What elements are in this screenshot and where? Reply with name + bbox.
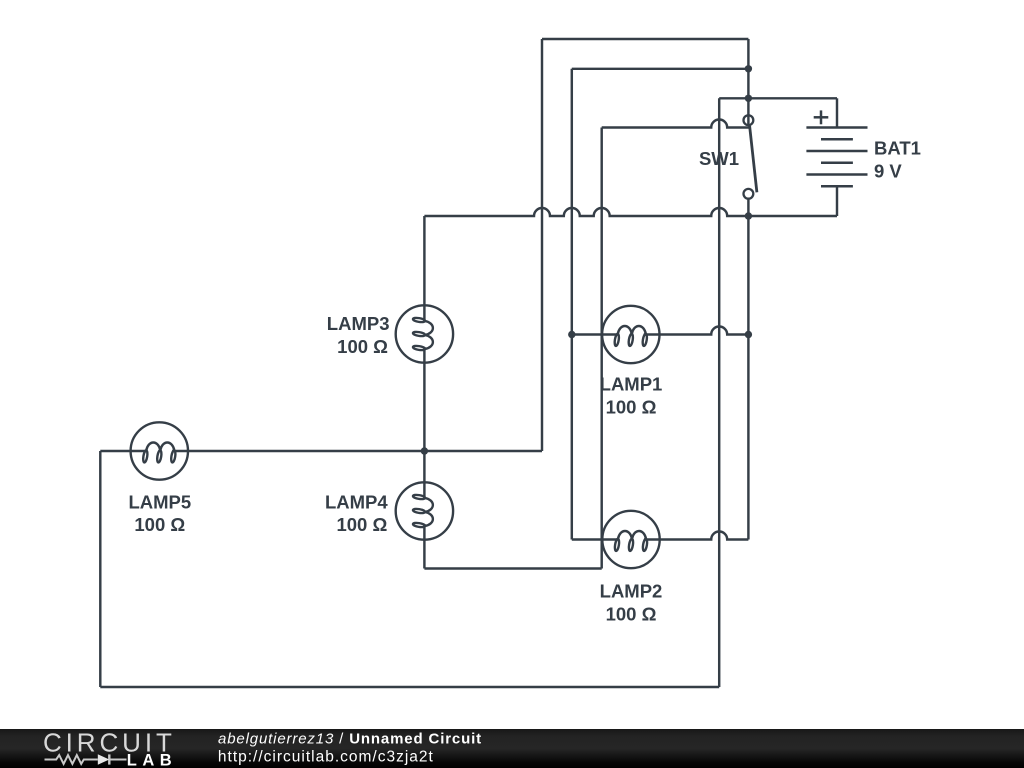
wire: battery top row from V4 corner to BAT1 [719,97,837,99]
lamp LAMP5 [131,422,188,479]
wire: vertical V3 x=601.7 [600,128,602,569]
svg-text:100 Ω: 100 Ω [337,336,388,357]
node at V5/H3 [745,95,752,102]
node at LAMP1 left [568,331,575,338]
svg-text:LAMP5: LAMP5 [128,492,191,513]
svg-text:SW1: SW1 [699,148,739,169]
wire: vertical V1 x=542 [541,39,543,451]
wire: vertical V8 lamp3/lamp4 column x=424.4 [423,216,425,569]
switch SW1 blade [750,126,757,193]
lamp LAMP2 [602,511,659,568]
footer bar [0,729,1024,768]
wire: vertical V7 left edge x=100.3 [99,451,101,687]
battery BAT1 plates [806,110,867,186]
lamp LAMP1 [602,306,659,363]
wire: main bus y=216 with hops over V1 V2 V3 V4 [424,208,837,216]
node at V5/bus [745,212,752,219]
wire: second horizontal net from V2 to V5 [572,68,749,70]
switch SW1 [744,115,757,198]
wire: LAMP2 row with hop over V4 [572,532,749,540]
footer logo resistor-diode glyph [45,754,127,764]
battery BAT1 bottom lead [836,186,838,216]
wire: LAMP1 row with hop over V4 [572,327,749,335]
node junction dots [421,65,752,455]
svg-text:LAMP4: LAMP4 [325,491,388,512]
wire: top horizontal net from V1 to V5 [542,38,748,40]
svg-text:100 Ω: 100 Ω [606,603,657,624]
svg-text:100 Ω: 100 Ω [134,514,185,535]
wire: LAMP4 bottom row [424,567,601,569]
wire: bottom rail [100,686,719,688]
svg-text:abelgutierrez13 / Unnamed Circ: abelgutierrez13 / Unnamed Circuit [218,731,482,748]
wire: vertical V5 lower x=748.4 [747,200,749,540]
wire: LAMP5 row [100,450,542,452]
svg-text:LAMP1: LAMP1 [600,374,663,395]
footer logo diode triangle [98,754,110,764]
wire: horizontal to switch blade with hop over V4 [602,120,749,128]
svg-text:http://circuitlab.com/c3zja2t: http://circuitlab.com/c3zja2t [218,749,434,766]
lamp LAMP3 (vertical) [396,305,453,362]
wire: vertical V2 x=571.8 [571,69,573,540]
node at V5/H2 [745,65,752,72]
svg-text:BAT1: BAT1 [874,138,921,159]
wire: vertical V4 x=719.2 [718,98,720,687]
svg-text:100 Ω: 100 Ω [336,514,387,535]
svg-text:100 Ω: 100 Ω [606,397,657,418]
battery plus sign [814,116,829,119]
svg-text:LAMP2: LAMP2 [600,580,663,601]
svg-text:LAB: LAB [127,751,177,768]
node at LAMP5 row / V8 [421,447,428,454]
svg-text:9 V: 9 V [874,161,902,182]
node at LAMP1 right [745,331,752,338]
wire: vertical V5 upper x=748.4 [747,39,749,126]
svg-text:LAMP3: LAMP3 [327,313,390,334]
battery BAT1 top lead [836,98,838,127]
switch SW1 top contact circle [744,115,754,125]
switch SW1 bottom contact circle [744,189,754,199]
lamp LAMP4 (vertical) [396,482,453,539]
